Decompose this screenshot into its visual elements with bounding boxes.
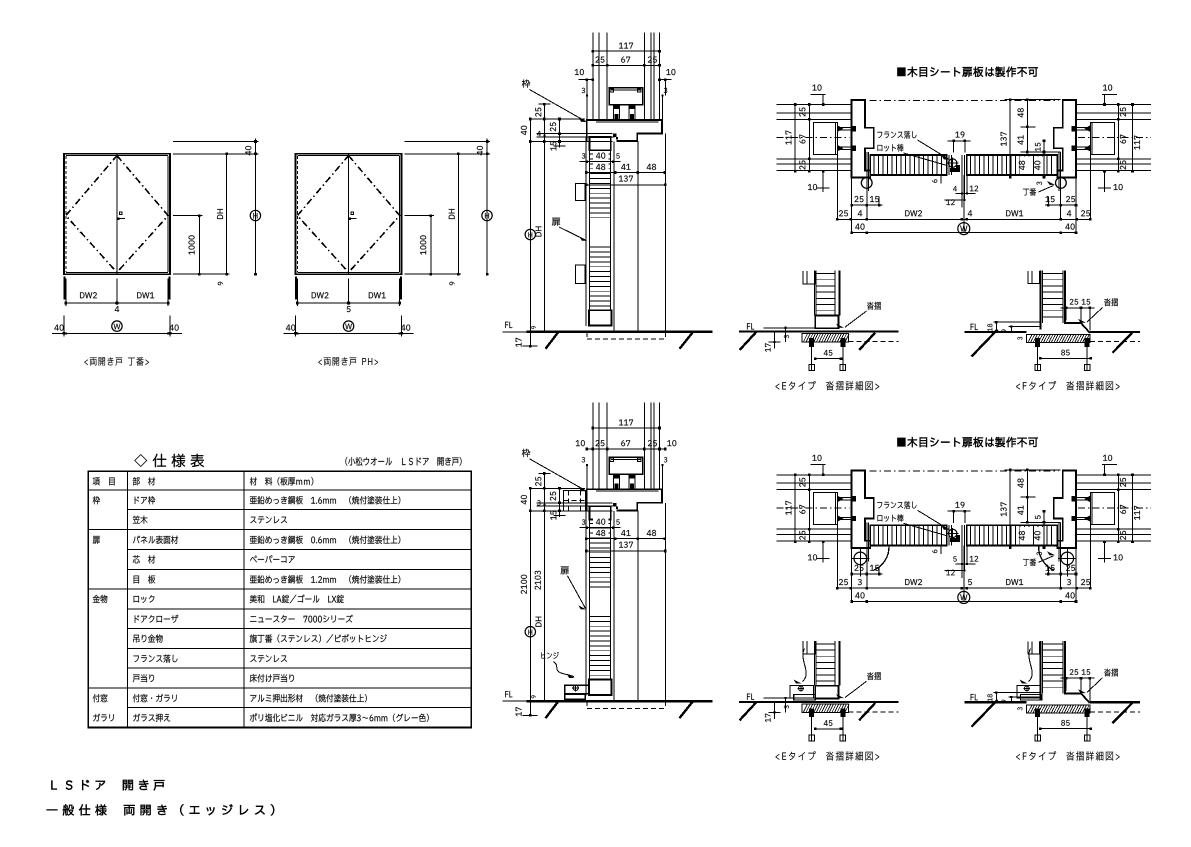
- E-type FL label: [747, 323, 754, 329]
- F-type sill body: [1026, 705, 1090, 713]
- dim 25 67 117 right rotated: [1117, 103, 1140, 173]
- bottom extension lines: [296, 277, 401, 306]
- left wall plan lines: [777, 475, 852, 541]
- ground line: [527, 700, 713, 702]
- centerline between jambs: [870, 100, 1059, 102]
- spec table grid: [88, 471, 471, 727]
- dim 1000: [405, 214, 435, 275]
- dim 10 bottom left: [808, 540, 830, 562]
- caption: [318, 357, 378, 365]
- E-type ground hatch left: [740, 702, 757, 720]
- left dim 25 15: [550, 118, 566, 151]
- F-type pivot hinge box: [1017, 685, 1042, 700]
- hinge bracket lower: [576, 265, 586, 283]
- E-type frame cut box: [803, 641, 816, 654]
- F-type sill label: [1078, 298, 1118, 322]
- left jamb profile: [852, 100, 874, 178]
- door leaf hatch rungs: [589, 523, 610, 675]
- spec table subtitle: [345, 457, 461, 466]
- dim 3 left frame clearance: [582, 88, 588, 120]
- dim 10 bottom left: [808, 170, 830, 192]
- door closer arms: [614, 474, 635, 489]
- french bolt device: [947, 158, 960, 172]
- left dim 4: [537, 131, 545, 137]
- ground hatch right: [680, 701, 694, 718]
- left dim 25 15: [550, 487, 566, 520]
- left ext lines: [530, 488, 614, 511]
- F-type door leaf rungs: [1042, 274, 1063, 317]
- door stop line at left jamb: [867, 152, 869, 191]
- dim 19: [948, 132, 971, 153]
- diamond decoration dash-dot: [297, 156, 399, 273]
- diamond decoration dash-dot: [66, 156, 168, 273]
- F-type step dims 18 9 3: [987, 321, 1041, 340]
- E-type pivot leader: [794, 649, 807, 684]
- dim row A left 25 15: [850, 565, 882, 575]
- hinge bracket upper: [576, 183, 586, 200]
- F-type dashed floor line: [1090, 711, 1140, 713]
- dim 117 left: [786, 103, 797, 173]
- dim 10 top left: [811, 455, 826, 476]
- dim line W with 40 40: [52, 316, 182, 337]
- E-type ground hatch right: [859, 333, 875, 350]
- pivot hinge arc left: [874, 546, 890, 570]
- E-type dim 17: [765, 332, 780, 352]
- left ext lines: [530, 119, 614, 142]
- rod label: [878, 144, 947, 166]
- E-type FL label: [747, 694, 754, 700]
- door leaf DW1: [967, 525, 1058, 545]
- F-type frame cut box: [1028, 641, 1039, 653]
- spec table text: [93, 477, 429, 722]
- right wall plan lines: [1076, 105, 1151, 171]
- dim 3 right frame clearance: [661, 88, 667, 120]
- pivot point right: [1058, 549, 1076, 577]
- right dim row 3 40 5: [580, 151, 621, 163]
- right anchor bolts: [1071, 496, 1090, 522]
- door closer box: [609, 88, 643, 105]
- french bolt label: [877, 501, 949, 530]
- right rotated dim 137: [1001, 98, 1012, 178]
- wall section lines above head: [593, 32, 660, 120]
- door closer box: [609, 457, 643, 474]
- left anchor box: [813, 122, 837, 154]
- FL label: [503, 322, 527, 332]
- right rotated dims 48 41: [1018, 469, 1029, 524]
- footer line 1: LS door: [51, 780, 164, 791]
- left dim 25 upper: [535, 472, 550, 511]
- dim 10 bottom right: [1098, 540, 1123, 562]
- door center meeting line: [348, 156, 350, 273]
- hinge circle left: [861, 178, 872, 189]
- section title: wood grain sheet not producible: [897, 437, 1037, 447]
- left anchor box: [813, 493, 837, 525]
- right ext lines: [1005, 470, 1061, 522]
- centerline between jambs: [870, 470, 1059, 472]
- footer line 2: general spec: [47, 804, 275, 815]
- dim 17 below floor: [516, 701, 538, 717]
- F-type caption: [1016, 751, 1119, 760]
- F-type ground hatch left: [972, 700, 998, 727]
- dim 10 bottom right: [1098, 170, 1123, 192]
- dim DH: [405, 153, 462, 276]
- E-type dim 3: [764, 697, 815, 712]
- door elevation inner leaf edge: [297, 156, 399, 273]
- E-type dashed floor line: [849, 711, 899, 713]
- head frame profile: [587, 489, 662, 511]
- FL label: [503, 691, 527, 701]
- dim 25 67 25 left: [799, 103, 810, 173]
- hinge label: [1023, 181, 1055, 196]
- door stop line at right jamb: [1059, 152, 1061, 191]
- ground line: [527, 331, 713, 333]
- head frame profile: [587, 120, 662, 142]
- E-type door leaf rungs: [816, 644, 835, 681]
- dim 19: [948, 502, 971, 523]
- door elevation outer frame: [64, 154, 170, 274]
- door leaf DW1: [967, 155, 1058, 175]
- E-type door bottom cap: [815, 686, 838, 699]
- left wall centerline: [777, 507, 850, 509]
- right dim row 48 41 48: [585, 163, 666, 174]
- section title: wood grain sheet not producible: [897, 67, 1037, 77]
- left jamb profile: [852, 470, 874, 548]
- E-type sill body: [802, 334, 849, 342]
- bottom extension lines: [64, 277, 169, 306]
- door label leader: [561, 567, 587, 610]
- F-type dim 85: [1039, 350, 1092, 360]
- ground hatch left: [546, 332, 559, 349]
- meeting stile lines: [949, 525, 965, 545]
- dim 117 left: [786, 474, 797, 544]
- F-type ground hatch right: [1113, 703, 1133, 723]
- E-type dim 45: [814, 350, 842, 360]
- dim 9 at floor: [531, 695, 535, 698]
- dim 25 67 25 left: [799, 474, 810, 544]
- dim line W with 40 40: [284, 316, 414, 337]
- F-type step dims 18 9 3: [987, 691, 1041, 710]
- F-type ground hatch right: [1113, 333, 1133, 353]
- right jamb profile: [1054, 100, 1076, 178]
- spec table title: [134, 454, 204, 467]
- E-type door leaf rungs: [816, 274, 835, 311]
- E-type anchor rods: [809, 717, 846, 741]
- dim row C 40 W 40: [850, 591, 1077, 603]
- pivot hinge arc right: [1039, 546, 1055, 570]
- F-type pivot leader: [1020, 649, 1033, 684]
- dim 6: [932, 544, 942, 553]
- center lower dims 4 12 12: [945, 175, 979, 207]
- dim 25 67 117 right rotated: [1117, 474, 1140, 544]
- right wall plan lines: [1076, 475, 1151, 541]
- right rotated dim 137: [1001, 469, 1012, 549]
- F-type dim 25 15: [1061, 299, 1095, 331]
- frame label leader: [522, 449, 587, 491]
- E-type dim 45: [814, 720, 842, 730]
- dashed underfloor box: [587, 701, 665, 708]
- F-type sill label: [1078, 669, 1118, 693]
- F-type ground line: [965, 701, 1141, 703]
- F-type door leaf edges: [1040, 641, 1089, 703]
- F-type FL label: [971, 694, 978, 700]
- door leaf DW2 hatch: [874, 155, 942, 175]
- labels DW2 DW1: [80, 292, 154, 298]
- DH dim line: [536, 510, 546, 703]
- E-type ground line: [739, 331, 899, 333]
- E-type door leaf edges: [815, 271, 840, 316]
- frame and wall lines below: [638, 134, 666, 332]
- F-type sill body: [1026, 335, 1090, 343]
- dim 6: [932, 174, 942, 183]
- F-type frame cut box: [1028, 271, 1039, 283]
- dim row B: [836, 579, 1092, 589]
- F-type anchor rods: [1035, 717, 1090, 741]
- E-type anchor rods: [809, 347, 846, 371]
- door leaf bottom cap: [589, 310, 612, 325]
- dim 25 67 25: [592, 57, 661, 67]
- dim 10 top left: [811, 85, 826, 106]
- right dim 137: [585, 542, 667, 553]
- hinge label: [1023, 551, 1055, 566]
- F-type FL label: [971, 324, 978, 330]
- dim 117 wall total: [592, 43, 661, 53]
- door leaf hatch rungs: [589, 154, 610, 306]
- F-type door leaf edges: [1040, 271, 1089, 333]
- door leaf DW2: [870, 525, 946, 545]
- door elevation inner leaf edge: [66, 156, 168, 273]
- right wall centerline: [1078, 507, 1151, 509]
- E-type dashed floor line: [849, 341, 899, 343]
- bottom extension lines: [837, 154, 1090, 232]
- DH dim line: [536, 140, 546, 333]
- right rotated dims 15 40 48 3: [1019, 140, 1045, 186]
- door leaf DW2: [870, 155, 946, 175]
- E-type caption: [776, 381, 880, 390]
- E-type ground line: [739, 701, 899, 703]
- F-type anchor rods: [1035, 347, 1090, 371]
- wall section lines above head: [593, 403, 660, 490]
- dim row A right 15 25: [1045, 565, 1077, 575]
- dim H with 40 head: [405, 139, 493, 276]
- E-type sill body: [802, 704, 849, 712]
- dim 10 left: [575, 69, 594, 95]
- right anchor box: [1090, 493, 1114, 525]
- door closer arms: [614, 105, 635, 120]
- dim 2100: [521, 575, 527, 594]
- F-type sill anchor bolts: [1035, 338, 1090, 347]
- dim 10 top right: [1102, 85, 1117, 106]
- dim 1000: [173, 214, 203, 275]
- dim DH: [173, 153, 230, 276]
- left dim 4: [537, 500, 545, 506]
- dim 10 25 67 25 10: [576, 440, 677, 450]
- E-type ground hatch left: [740, 332, 757, 350]
- F-type caption: [1016, 381, 1119, 390]
- dim row A right 15 25: [1045, 196, 1077, 206]
- dim 2103: [535, 571, 541, 590]
- right wall centerline: [1078, 137, 1151, 139]
- french bolt device: [947, 528, 960, 542]
- E-type dim 3: [764, 327, 815, 342]
- F-type dim 25 15: [1061, 669, 1095, 701]
- right anchor box: [1090, 122, 1114, 154]
- dim row A left 25 15: [850, 196, 882, 206]
- dim 9 at floor: [531, 326, 535, 329]
- E-type sill anchor bolts: [809, 708, 845, 717]
- rod label: [878, 514, 947, 536]
- door leaf edges: [586, 506, 614, 701]
- E-type ground hatch right: [859, 703, 875, 720]
- left dim 40: [521, 487, 532, 512]
- frame label leader: [522, 79, 587, 121]
- door leaf DW1 hatch: [971, 155, 1052, 175]
- bottom extension lines: [837, 525, 1090, 602]
- E-type frame cut box: [803, 271, 816, 284]
- H dim line: [525, 511, 535, 703]
- right dim row 3 40 5: [580, 517, 621, 529]
- right dim 137: [585, 176, 667, 187]
- door leaf top cap: [590, 506, 611, 519]
- door center meeting line: [116, 156, 118, 273]
- dim 3 left frame clearance: [582, 457, 588, 489]
- ground hatch left: [546, 701, 559, 718]
- dim 9 bottom: [449, 282, 454, 285]
- right anchor bolts: [1071, 125, 1090, 151]
- dim 17 below floor: [516, 332, 538, 348]
- door leaf top cap: [590, 137, 611, 150]
- french bolt label: [877, 131, 949, 160]
- right jamb profile: [1054, 470, 1076, 548]
- door elevation outer frame: [296, 154, 402, 274]
- right dim row 48 41 48: [585, 529, 666, 540]
- E-type pivot hinge box: [790, 685, 815, 700]
- dim line DW: [296, 302, 401, 312]
- E-type sill anchor bolts: [809, 338, 845, 347]
- door leaf edges: [586, 137, 614, 332]
- door handle mark: [117, 212, 125, 220]
- dim 3 right frame clearance: [661, 457, 667, 489]
- dim line DW: [65, 302, 170, 312]
- F-type sill anchor bolts: [1035, 708, 1090, 717]
- left dim 25 upper: [535, 103, 550, 142]
- frame and wall lines below: [638, 503, 666, 701]
- H dim line: [525, 142, 535, 334]
- E-type dim 17: [765, 702, 780, 722]
- dim 10 right: [658, 69, 675, 95]
- door stop line at right jamb: [1059, 522, 1061, 561]
- dim 9 bottom: [218, 282, 223, 285]
- E-type sill label: [836, 672, 881, 698]
- door stop line at left jamb: [867, 522, 869, 561]
- right ext lines: [1005, 100, 1061, 152]
- dim 117 wall total: [592, 420, 661, 430]
- dashed underfloor box: [587, 332, 665, 339]
- F-type dashed floor line: [1090, 341, 1140, 343]
- F-type door leaf rungs: [1042, 644, 1063, 687]
- dim 10 top right: [1102, 455, 1117, 476]
- door leaf DW2 hatch: [874, 525, 942, 545]
- ground hatch right: [680, 332, 694, 349]
- right rotated dims 15 40 48 3: [1019, 510, 1045, 556]
- F-type dim 85: [1039, 720, 1092, 730]
- E-type caption: [776, 751, 880, 760]
- hinge label leader: [541, 652, 574, 678]
- E-type door bottom cap: [815, 315, 838, 328]
- caption: [84, 357, 148, 366]
- door leaf bottom cap: [589, 680, 612, 695]
- left anchor bolts: [837, 125, 856, 151]
- dim row B: [836, 210, 1092, 220]
- door handle mark: [349, 212, 357, 220]
- left dim 40: [521, 118, 532, 143]
- F-type ground line: [965, 331, 1141, 333]
- meeting stile lines: [949, 155, 965, 175]
- door leaf DW1 hatch: [971, 525, 1052, 545]
- dashed frame box at head: [564, 490, 586, 511]
- center lower dims 4 12 12: [945, 545, 979, 577]
- dim H with 40 head: [173, 139, 261, 276]
- pivot point left: [852, 549, 870, 577]
- pivot hinge at floor: [565, 685, 589, 700]
- E-type sill label: [836, 302, 881, 328]
- E-type door leaf edges: [815, 641, 840, 686]
- hinge circle right: [1056, 178, 1067, 189]
- dim row C 40 W 40: [850, 223, 1077, 235]
- right rotated dims 48 41: [1018, 98, 1029, 153]
- F-type ground hatch left: [972, 330, 998, 357]
- left anchor bolts: [837, 496, 856, 522]
- labels DW2 DW1: [312, 292, 386, 298]
- left wall plan lines: [777, 105, 852, 171]
- door label leader: [552, 218, 588, 241]
- left wall centerline: [777, 137, 850, 139]
